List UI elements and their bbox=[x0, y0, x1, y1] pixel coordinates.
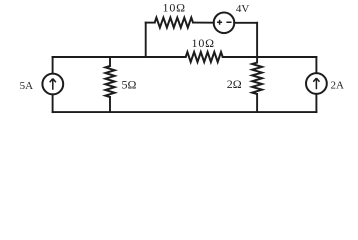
svg-text:4V: 4V bbox=[236, 3, 250, 15]
wire left rail lower bbox=[52, 94, 54, 112]
wire right rail lower bbox=[315, 94, 317, 112]
svg-text:5Ω: 5Ω bbox=[121, 78, 136, 92]
svg-text:10Ω: 10Ω bbox=[192, 36, 215, 50]
wire source to right corner bbox=[234, 22, 257, 24]
wire top branch left horizontal bbox=[146, 22, 155, 24]
voltage source 4V bbox=[214, 12, 235, 33]
resistor 5Ω bbox=[105, 57, 114, 112]
label 10Ω top bbox=[163, 1, 186, 15]
svg-text:2Ω: 2Ω bbox=[227, 77, 242, 91]
current source 2A bbox=[306, 73, 327, 94]
wire resistor to source bbox=[193, 22, 214, 24]
label 5A bbox=[20, 80, 34, 92]
wire bottom rail bbox=[53, 111, 317, 113]
svg-text:10Ω: 10Ω bbox=[163, 1, 186, 15]
wire top branch left vertical bbox=[145, 23, 147, 57]
current source 5A bbox=[42, 74, 63, 95]
resistor 10Ω top bbox=[155, 18, 193, 28]
wire left rail upper bbox=[52, 57, 54, 74]
wire right rail upper bbox=[315, 57, 317, 73]
svg-text:5A: 5A bbox=[20, 80, 34, 92]
label 5Ω bbox=[121, 78, 136, 92]
wire top branch right vertical bbox=[256, 23, 258, 57]
label 10Ω middle bbox=[192, 36, 215, 50]
wire middle rail right segment bbox=[223, 56, 317, 58]
label 2A bbox=[330, 80, 344, 92]
label 4V bbox=[236, 3, 250, 15]
resistor 2Ω bbox=[252, 57, 262, 112]
label 2Ω bbox=[227, 77, 242, 91]
wire middle rail left segment bbox=[53, 56, 186, 58]
svg-text:2A: 2A bbox=[330, 80, 344, 92]
resistor 10Ω middle bbox=[186, 52, 223, 62]
